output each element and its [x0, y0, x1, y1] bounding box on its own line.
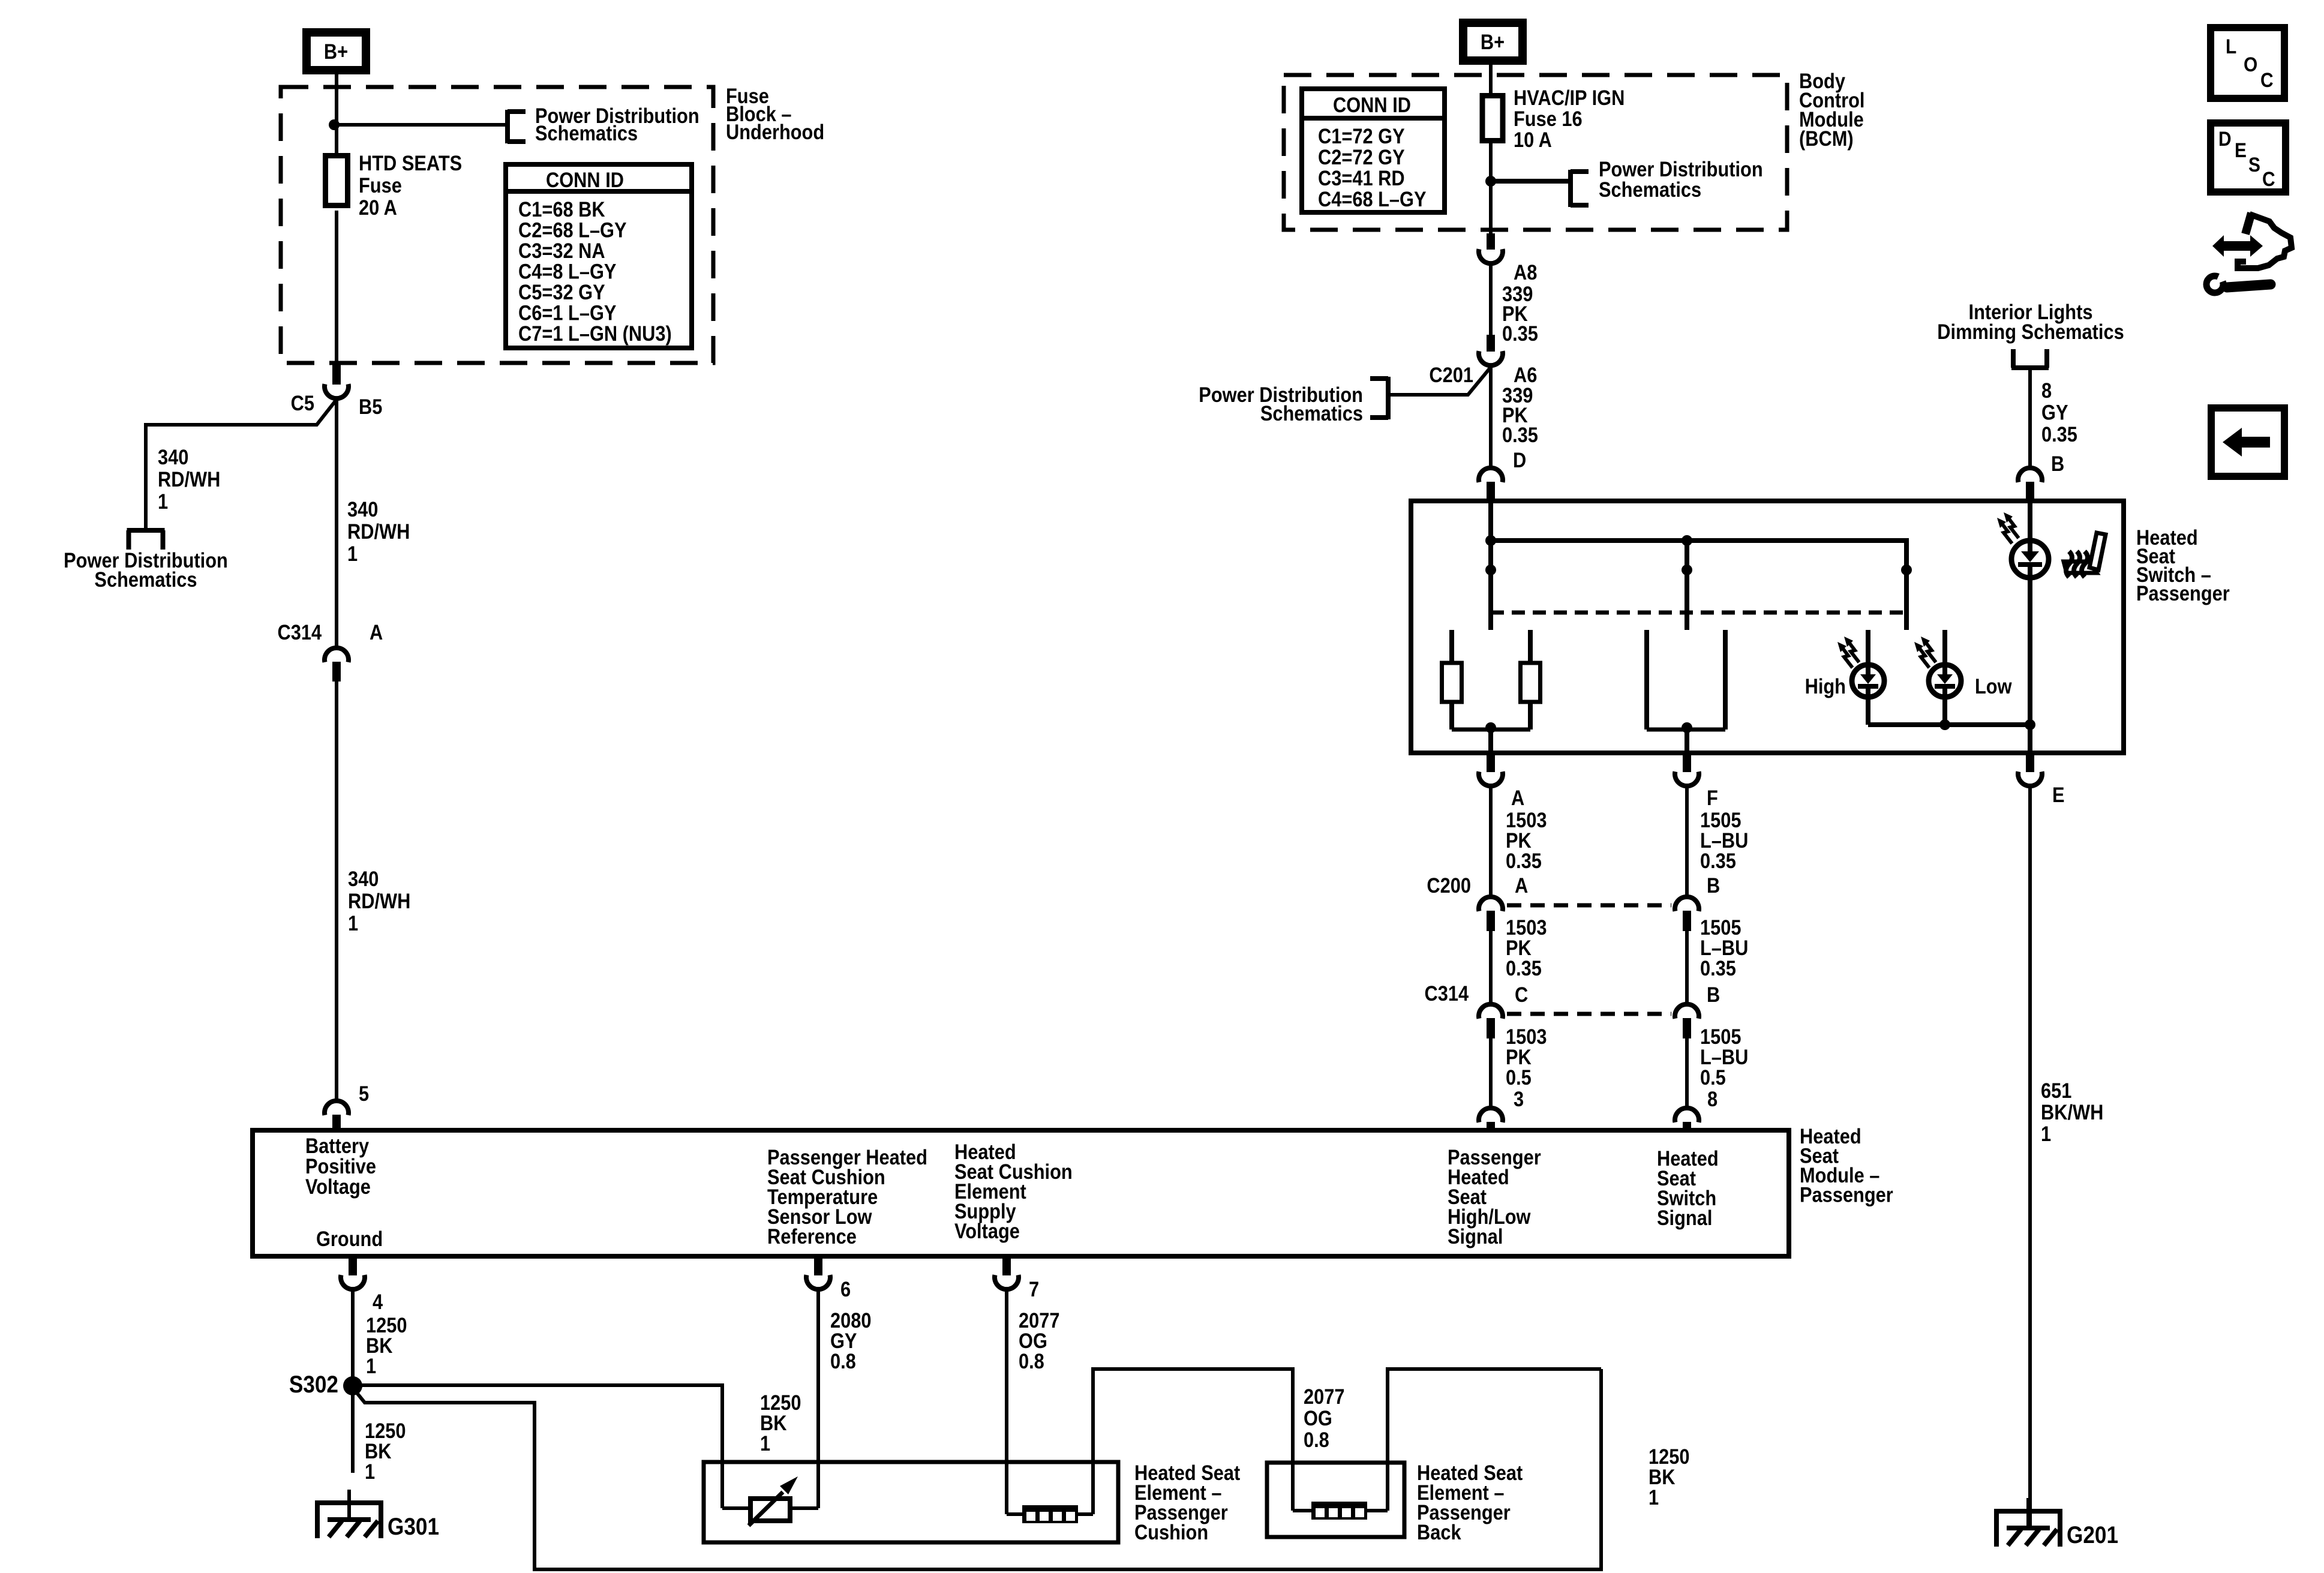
svg-text:Schematics: Schematics	[535, 121, 638, 145]
svg-text:C: C	[2262, 167, 2275, 190]
module pin 8 socket arc	[1675, 1108, 1699, 1122]
wire element back return	[1388, 1369, 1601, 1511]
svg-text:0.8: 0.8	[830, 1349, 856, 1373]
svg-text:CONN ID: CONN ID	[1333, 93, 1411, 116]
svg-text:1: 1	[2041, 1122, 2051, 1145]
svg-text:1: 1	[760, 1431, 770, 1455]
svg-text:C1=68 BK: C1=68 BK	[518, 197, 605, 221]
svg-text:A8: A8	[1514, 260, 1537, 284]
svg-text:S: S	[2248, 153, 2260, 176]
LED bottom bus	[1866, 700, 1870, 725]
svg-text:6: 6	[840, 1277, 851, 1301]
connector C314-B pin stub	[1683, 1018, 1691, 1038]
C314 dashed link	[1507, 1012, 1671, 1016]
wire to power distribution bracket	[334, 123, 508, 127]
icon DESC box	[2211, 123, 2286, 192]
fuse HVAC/IP IGN 16 10A	[1482, 96, 1503, 141]
wire branch diagonal from C5	[146, 400, 337, 530]
resistor tails	[1449, 702, 1454, 730]
svg-text:Back: Back	[1417, 1520, 1461, 1544]
off-page bracket (Power Distribution, C201)	[1386, 377, 1391, 419]
svg-text:0.8: 0.8	[1019, 1349, 1044, 1373]
svg-text:Schematics: Schematics	[1260, 401, 1363, 425]
switch pin E socket arc	[2018, 772, 2042, 786]
svg-text:Underhood: Underhood	[726, 120, 824, 143]
wire C200-B to C314-B	[1685, 931, 1689, 1004]
svg-text:0.5: 0.5	[1700, 1065, 1726, 1089]
indicator LED wires	[2028, 501, 2032, 541]
heated seat element cushion box	[704, 1462, 1118, 1542]
connector C5/B5 pin stub	[332, 363, 341, 385]
switch pin F socket arc	[1675, 772, 1699, 786]
switch throw stubs (right pair)	[1644, 630, 1649, 730]
svg-text:0.35: 0.35	[1502, 322, 1538, 345]
switch throw stubs (left pair)	[1449, 630, 1454, 663]
wire C314 to module pin 3	[1489, 1038, 1493, 1109]
svg-text:1: 1	[347, 542, 358, 565]
svg-text:20 A: 20 A	[359, 196, 397, 219]
svg-text:C6=1 L–GY: C6=1 L–GY	[518, 301, 616, 325]
svg-text:B: B	[1707, 873, 1720, 897]
connector C200-A pin stub	[1487, 911, 1495, 931]
wire C314 to module pin 5	[335, 682, 338, 1102]
svg-text:A: A	[1511, 786, 1524, 809]
switch pin B socket arc	[2018, 468, 2042, 482]
icon wrench	[2206, 276, 2223, 293]
svg-text:L: L	[2226, 35, 2236, 58]
BCM pin A8 socket arc	[1479, 249, 1503, 263]
wire S302 to G301	[351, 1395, 355, 1473]
icon LOC box	[2211, 28, 2284, 98]
C200 dashed link	[1507, 903, 1671, 908]
svg-text:2077: 2077	[1304, 1385, 1344, 1408]
module pin 3 stub	[1487, 1122, 1495, 1130]
off-page bracket (Power Distribution, fuse block)	[505, 110, 510, 143]
heating element back leads	[1293, 1509, 1311, 1512]
svg-text:C314: C314	[1424, 981, 1469, 1005]
module pin 4 stub	[349, 1256, 357, 1275]
svg-text:1: 1	[365, 1460, 375, 1483]
svg-text:C5=32 GY: C5=32 GY	[518, 280, 605, 304]
svg-text:B: B	[1707, 983, 1720, 1006]
wire pin 7 to element	[1005, 1292, 1008, 1514]
svg-text:GY: GY	[2041, 401, 2068, 424]
svg-text:Passenger: Passenger	[1800, 1183, 1893, 1206]
svg-text:O: O	[2244, 53, 2257, 76]
svg-text:Cushion: Cushion	[1134, 1520, 1208, 1544]
resistor left	[1442, 663, 1462, 702]
connector C5/B5 socket arc	[325, 384, 349, 398]
svg-text:A: A	[1515, 873, 1528, 897]
switch feed wire	[1488, 501, 1493, 541]
fuse block dashed box (Fuse Block - Underhood)	[281, 87, 713, 363]
heating element cushion	[1022, 1505, 1078, 1523]
right throws joined	[1647, 728, 1725, 732]
switch pin B stub	[2026, 482, 2034, 501]
connector C200-B pin stub	[1683, 911, 1691, 931]
svg-text:C2=68 L–GY: C2=68 L–GY	[518, 218, 627, 242]
ground G301 symbol	[315, 1500, 383, 1505]
connector C201 pin stub	[1487, 335, 1495, 352]
heated seat switch box	[1411, 501, 2124, 753]
svg-text:C3=32 NA: C3=32 NA	[518, 239, 605, 262]
wire to pin A	[1488, 730, 1493, 753]
wire pin 4 to S302	[351, 1292, 355, 1385]
svg-text:B: B	[2051, 452, 2064, 475]
svg-text:1: 1	[366, 1354, 376, 1377]
svg-text:HVAC/IP IGN: HVAC/IP IGN	[1514, 86, 1625, 109]
temperature sensor (thermistor)	[750, 1499, 790, 1521]
switch bus wire	[1491, 541, 1906, 570]
wire C5 to C314	[335, 398, 338, 647]
svg-text:E: E	[2052, 783, 2065, 806]
svg-text:0.8: 0.8	[1304, 1428, 1329, 1451]
svg-text:C4=8 L–GY: C4=8 L–GY	[518, 260, 616, 283]
svg-text:Fuse: Fuse	[359, 173, 402, 197]
off-page bracket (Interior Lights)	[2011, 365, 2049, 370]
svg-text:Dimming Schematics: Dimming Schematics	[1937, 320, 2124, 343]
svg-text:RD/WH: RD/WH	[158, 467, 220, 491]
LED Low	[1942, 630, 1947, 665]
module pin 5 stub	[332, 1115, 341, 1130]
svg-text:1: 1	[158, 490, 168, 513]
wire E to G201	[2028, 786, 2032, 1527]
heated seat module box	[253, 1130, 1789, 1256]
svg-text:3: 3	[1514, 1087, 1524, 1110]
splice S302 dot	[343, 1376, 362, 1395]
svg-text:Signal: Signal	[1448, 1224, 1503, 1248]
svg-text:Fuse 16: Fuse 16	[1514, 107, 1583, 130]
svg-text:B+: B+	[324, 40, 348, 63]
icon back arrow box	[2211, 408, 2284, 476]
connector C314-B socket arc	[1675, 1004, 1699, 1019]
switch pin A stub	[1487, 753, 1495, 772]
svg-text:340: 340	[158, 445, 188, 469]
svg-text:1: 1	[1649, 1485, 1659, 1509]
svg-text:C2=72 GY: C2=72 GY	[1318, 145, 1405, 169]
wire B+ to fuse block	[335, 74, 338, 154]
fuse HTD SEATS 20A	[326, 156, 348, 206]
LED bus dots	[1939, 719, 1950, 730]
svg-text:0.35: 0.35	[1502, 423, 1538, 446]
svg-text:S302: S302	[289, 1371, 338, 1398]
switch pin F stub	[1683, 753, 1691, 772]
svg-text:C201: C201	[1429, 363, 1473, 386]
BCM dashed box (Body Control Module)	[1284, 75, 1787, 230]
svg-text:Schematics: Schematics	[94, 568, 197, 591]
svg-text:Signal: Signal	[1657, 1206, 1712, 1229]
svg-text:F: F	[1707, 786, 1718, 809]
svg-text:D: D	[2218, 127, 2232, 150]
module pin 7 stub	[1002, 1256, 1011, 1275]
indicator LED	[2011, 541, 2049, 578]
svg-text:C7=1 L–GN (NU3): C7=1 L–GN (NU3)	[518, 322, 672, 345]
svg-text:7: 7	[1029, 1277, 1039, 1301]
switch pole dots	[1485, 565, 1496, 575]
svg-text:RD/WH: RD/WH	[347, 520, 410, 543]
wire C201 branch to power distribution	[1390, 367, 1491, 395]
svg-text:BK/WH: BK/WH	[2041, 1100, 2103, 1124]
svg-text:C: C	[2260, 68, 2274, 91]
svg-text:0.5: 0.5	[1506, 1065, 1532, 1089]
switch pin E stub	[2026, 753, 2034, 772]
wire to pin F	[1685, 730, 1689, 753]
wire element cushion to back (bridge)	[1093, 1369, 1293, 1514]
icon vehicle with double arrow	[2245, 213, 2251, 234]
svg-text:G201: G201	[2067, 1521, 2118, 1548]
wire C314-B to module pin 8	[1685, 1038, 1689, 1109]
svg-text:B+: B+	[1481, 30, 1505, 53]
off-page bracket (Power Distribution, BCM)	[1568, 170, 1573, 207]
switch pole wires	[1488, 541, 1493, 630]
wire C200 to C314	[1489, 931, 1493, 1004]
module pin 7 socket arc	[995, 1275, 1019, 1289]
svg-text:G301: G301	[388, 1513, 439, 1540]
svg-text:C3=41 RD: C3=41 RD	[1318, 166, 1405, 190]
switch pin D stub	[1487, 482, 1495, 501]
wire C201 to switch pin D	[1489, 367, 1493, 469]
svg-text:651: 651	[2041, 1079, 2071, 1102]
svg-text:8: 8	[1707, 1087, 1718, 1110]
svg-text:C4=68 L–GY: C4=68 L–GY	[1318, 187, 1427, 211]
svg-text:0.35: 0.35	[1700, 956, 1736, 980]
svg-text:0.35: 0.35	[1506, 849, 1542, 872]
wire B+ to BCM fuse	[1489, 65, 1493, 96]
wire to switch pin B	[2028, 368, 2032, 470]
svg-text:Low: Low	[1975, 674, 2012, 698]
wire F to C200	[1685, 786, 1689, 897]
svg-text:4: 4	[373, 1290, 383, 1313]
left throws joined	[1452, 728, 1530, 732]
connector C200-B socket arc	[1675, 897, 1699, 911]
svg-text:High: High	[1805, 674, 1846, 698]
wire fuse to A8	[1489, 143, 1493, 235]
svg-text:HTD SEATS: HTD SEATS	[359, 151, 462, 175]
thermistor leads	[722, 1506, 750, 1510]
module pin 3 socket arc	[1479, 1108, 1503, 1122]
svg-text:D: D	[1513, 448, 1526, 472]
module pin 6 socket arc	[806, 1275, 830, 1289]
connector C314-C socket arc	[1479, 1004, 1503, 1019]
svg-text:C5: C5	[291, 391, 314, 415]
LED High	[1866, 630, 1870, 665]
svg-text:C1=72 GY: C1=72 GY	[1318, 124, 1405, 148]
module pin 8 stub	[1683, 1122, 1691, 1130]
heated seat icon	[2064, 562, 2097, 573]
module pin 6 stub	[814, 1256, 822, 1275]
svg-text:1: 1	[348, 911, 358, 935]
connector C314/A pin stub	[332, 662, 341, 682]
module pin 4 socket arc	[341, 1275, 365, 1289]
svg-text:RD/WH: RD/WH	[348, 889, 410, 912]
junction dot BCM	[1485, 176, 1496, 187]
heating element cushion leads	[1007, 1512, 1022, 1516]
switch pin A socket arc	[1479, 772, 1503, 786]
svg-text:Reference: Reference	[767, 1224, 857, 1248]
wire pin 6 to sensor	[816, 1292, 820, 1508]
wire S302 upper branch to sensor	[361, 1385, 722, 1508]
B+ battery feed symbol (left)	[307, 32, 366, 70]
connector C200-A socket arc	[1479, 897, 1503, 911]
module pin 5 socket arc	[325, 1101, 349, 1115]
wire A to C200	[1489, 786, 1493, 897]
svg-text:C314: C314	[277, 620, 322, 644]
off-page bracket (Power Distribution, left)	[127, 528, 165, 533]
switch pin D socket arc	[1479, 468, 1503, 482]
svg-text:OG: OG	[1304, 1406, 1332, 1430]
BCM pin A8 stub	[1487, 233, 1495, 250]
switch bus junction dot 2	[1682, 535, 1692, 546]
heated seat element back box	[1267, 1463, 1404, 1537]
B+ battery feed symbol (BCM)	[1463, 23, 1523, 61]
svg-text:Passenger: Passenger	[2136, 581, 2230, 605]
connector C201 socket arc	[1479, 351, 1503, 365]
connector C314-C pin stub	[1487, 1018, 1495, 1038]
svg-text:A: A	[370, 620, 383, 644]
svg-text:Voltage: Voltage	[954, 1219, 1020, 1242]
wire fuse to C5 connector	[335, 211, 338, 365]
svg-text:0.35: 0.35	[1506, 956, 1542, 980]
svg-text:(BCM): (BCM)	[1799, 127, 1854, 150]
svg-text:340: 340	[348, 867, 379, 890]
resistor right	[1521, 663, 1541, 702]
svg-text:340: 340	[347, 497, 378, 521]
CONN ID table (BCM)	[1302, 89, 1445, 212]
CONN ID table (fuse block)	[506, 164, 692, 348]
wire A8 to C201	[1489, 266, 1493, 335]
junction dot at fuse feed	[329, 119, 340, 130]
svg-text:C: C	[1515, 983, 1528, 1006]
wire S302 lower branch to element return	[357, 1369, 1601, 1569]
switch bus junction dot 1	[1485, 535, 1496, 546]
svg-text:0.35: 0.35	[2041, 422, 2077, 446]
ground G201 symbol	[1994, 1509, 2062, 1514]
svg-text:C200: C200	[1427, 873, 1471, 897]
heating element back	[1311, 1502, 1367, 1520]
svg-text:10 A: 10 A	[1514, 128, 1552, 151]
svg-text:Voltage: Voltage	[305, 1175, 371, 1198]
connector C314/A socket arc	[325, 648, 349, 662]
svg-text:Schematics: Schematics	[1599, 178, 1701, 201]
svg-text:0.35: 0.35	[1700, 849, 1736, 872]
wire to power distribution bracket (BCM)	[1491, 179, 1571, 184]
svg-text:8: 8	[2041, 379, 2052, 402]
svg-text:Ground: Ground	[316, 1227, 383, 1250]
switch gang dashed link	[1491, 611, 1906, 615]
svg-text:CONN ID: CONN ID	[546, 168, 624, 191]
svg-text:E: E	[2235, 139, 2247, 161]
svg-text:5: 5	[359, 1082, 369, 1105]
svg-text:B5: B5	[359, 395, 382, 418]
